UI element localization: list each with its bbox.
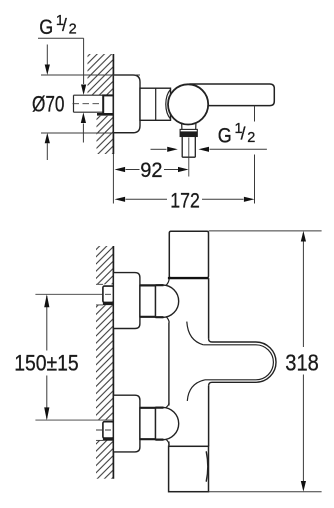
body left edge (168, 323, 170, 447)
wall face line (top view) (112, 54, 114, 154)
Ø70 dimension arrows (46, 45, 48, 65)
bottom union nut (140, 408, 156, 439)
bottom inlet: gap boundary lines (96, 439, 103, 441)
92 dimension (126, 169, 140, 171)
svg-text:2: 2 (247, 130, 255, 146)
top escutcheon (113, 273, 139, 329)
top inlet stub (103, 286, 114, 302)
svg-text:318: 318 (285, 349, 319, 375)
escutcheon bottom edge co-linear (113, 132, 134, 134)
150±15 dimension (46, 296, 48, 418)
neck under circle (182, 124, 196, 130)
G 1/2 label bottom (outlet) (218, 121, 255, 147)
top union bulge (156, 285, 179, 317)
top union fillets to body (166, 279, 169, 323)
bottom union fillets to body (166, 403, 169, 445)
bottom cap crescent (206, 451, 208, 481)
svg-text:G: G (39, 16, 53, 39)
svg-text:G: G (218, 125, 232, 148)
172 extension line from lever (254, 106, 256, 204)
spout upper curl (187, 322, 204, 345)
spout lower curl (187, 380, 205, 401)
Ø70 extension lines (41, 75, 140, 133)
wall hatch (bottom view) (96, 246, 113, 479)
svg-text:Ø70: Ø70 (32, 92, 65, 117)
318 dimension (302, 233, 304, 490)
outlet pipe (182, 137, 195, 158)
G1/2 socket in wall (103, 95, 113, 114)
svg-text:/: / (241, 123, 246, 143)
svg-text:150±15: 150±15 (14, 351, 79, 376)
top inlet: gap boundary lines (96, 284, 103, 305)
lever handle (190, 84, 274, 106)
escutcheon Ø70 (113, 75, 140, 133)
G 1/2 label top-left (39, 13, 76, 39)
G1/2 outlet leader: left piece with right-pointing arrow (151, 148, 167, 150)
svg-text:2: 2 (69, 21, 77, 37)
body top cap (169, 231, 208, 278)
G1/2 outlet leader: underline with left-pointing arrow (210, 148, 267, 150)
top union nut (140, 285, 156, 316)
wall hatch (top view) (88, 54, 114, 154)
valve body circle (168, 84, 208, 124)
body section divider (155, 88, 157, 120)
body bottom cap (169, 446, 209, 491)
bottom inlet centerline / 150 extension (35, 419, 113, 421)
faucet body cylinder (140, 88, 171, 120)
outlet centerline (188, 138, 190, 177)
svg-text:92: 92 (140, 159, 162, 182)
pipe centerline dashes (73, 103, 117, 105)
svg-text:172: 172 (170, 190, 200, 213)
body right edge (208, 278, 210, 446)
body section line (thick) (168, 277, 209, 279)
bottom union bulge (156, 407, 179, 439)
wall extension line down to 172 dim (112, 154, 114, 204)
318 dimension extension lines (209, 231, 322, 492)
wall face line (bottom view) (112, 246, 114, 479)
spout outer profile (209, 339, 276, 386)
G1/2 leader (top-left): underline, drop, arrows to pipe (38, 38, 84, 84)
collar ring nut (180, 129, 197, 136)
supply pipe in wall (74, 95, 104, 112)
172 dimension (126, 198, 168, 200)
svg-text:/: / (62, 15, 67, 35)
top inlet centerline / 150 extension (35, 293, 96, 295)
bottom inlet stub (103, 422, 114, 438)
body end-cap arc (166, 89, 171, 119)
bottom escutcheon (113, 395, 139, 452)
spout inner profile (203, 345, 273, 380)
